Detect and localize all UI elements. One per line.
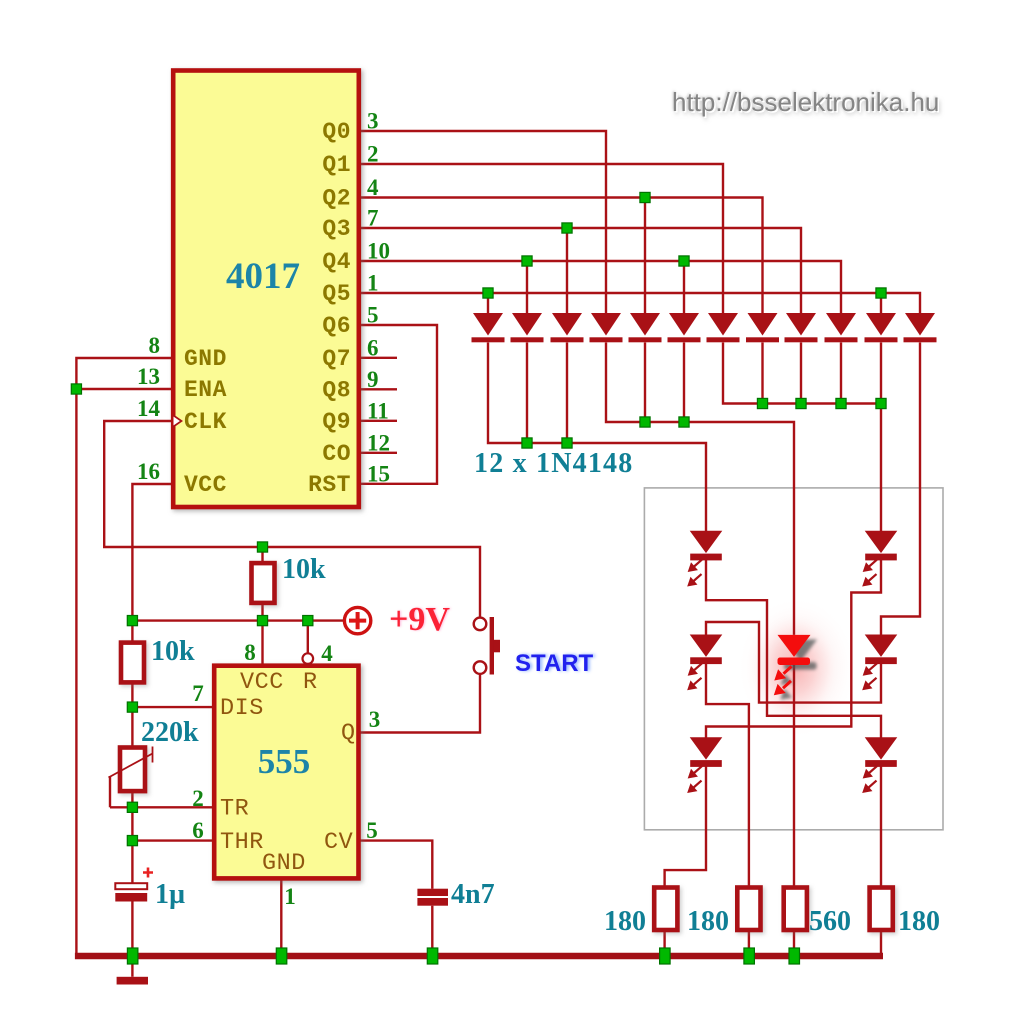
555 pin names [220, 669, 356, 877]
svg-text:RST: RST [308, 472, 351, 498]
svg-text:Q1: Q1 [322, 152, 351, 178]
resistor R6 10k left [121, 643, 144, 683]
diode D3 1N4148 [551, 313, 584, 342]
svg-text:7: 7 [367, 206, 379, 231]
wire DIS pin7 [132, 706, 214, 708]
wire pot wiper to TR line [109, 776, 111, 807]
4017 left pin names [184, 346, 227, 498]
op IC U2 555 body [214, 666, 358, 879]
wire Q5 pin1 to diode D12 [359, 293, 920, 313]
svg-text:3: 3 [369, 707, 381, 732]
wire Q3 pin7 to diode D9 [359, 228, 801, 313]
555 reset pin open circle [303, 653, 314, 664]
svg-text:Q9: Q9 [322, 409, 351, 435]
wire 555 R pin4 [307, 621, 309, 654]
wire 555 GND pin1 to rail [280, 878, 282, 954]
wire THR pin6 [132, 839, 214, 841]
svg-text:http://bsselektronika.hu: http://bsselektronika.hu [672, 87, 939, 117]
svg-text:8: 8 [244, 640, 256, 665]
svg-text:Q8: Q8 [322, 377, 351, 403]
diode D12 1N4148 [904, 313, 937, 342]
wire bus A: D4 bottom along y422 to center LED [606, 343, 794, 635]
svg-text:DIS: DIS [220, 695, 264, 722]
svg-text:CO: CO [322, 441, 351, 467]
svg-text:4: 4 [367, 175, 379, 200]
svg-text:1: 1 [367, 271, 379, 296]
svg-text:Q5: Q5 [322, 281, 351, 307]
wire D6 bottom to bus A [683, 343, 685, 423]
svg-text:R: R [303, 669, 318, 696]
wire D3 bottom to bus C [566, 343, 568, 444]
wire GND pin8 of 4017 down left side to ground rail [76, 358, 173, 954]
diode D6 1N4148 [668, 313, 701, 342]
wire Q0 pin3 to diode D4 [359, 131, 606, 313]
LED bottom-right [863, 738, 896, 793]
svg-text:VCC: VCC [240, 669, 284, 696]
wire diode D11 top to Q5 line [880, 293, 882, 313]
capacitor C1 1u electrolytic [115, 868, 153, 902]
wire R5 10k bottom lead to +9V [261, 603, 263, 621]
resistor R2 180 [737, 888, 760, 931]
resistor R3 560 [784, 888, 807, 931]
capacitor C2 4n7 [417, 889, 448, 906]
svg-text:14: 14 [137, 396, 161, 421]
diode D5 1N4148 [629, 313, 662, 342]
wire D8 bottom to bus B [761, 343, 763, 404]
svg-text:GND: GND [184, 346, 227, 372]
555 pin numbers [192, 640, 380, 909]
diode D1 1N4148 [472, 313, 505, 342]
wire bottom-right LED cathode to resistor R4 [880, 766, 882, 888]
svg-text:10k: 10k [151, 636, 195, 667]
svg-text:THR: THR [220, 829, 264, 856]
svg-text:6: 6 [192, 818, 204, 843]
wire 555 VCC pin8 [261, 621, 263, 666]
wire diode D1 top to Q5 line [487, 293, 489, 313]
shadow of lit center LED [780, 640, 817, 700]
LED mid-right [863, 635, 896, 690]
4017 right pin numbers [367, 109, 390, 487]
wire Q1 pin2 to diode D7 [359, 164, 723, 313]
wire diode D5 top to Q2 line [644, 198, 646, 314]
wire R6 10k left column top lead [131, 621, 133, 643]
svg-text:555: 555 [258, 742, 311, 781]
op IC U1 4017 body [173, 71, 359, 508]
svg-text:180: 180 [604, 906, 646, 937]
resistor R5 10k top [252, 563, 275, 603]
svg-text:180: 180 [687, 906, 729, 937]
svg-text:4: 4 [321, 641, 333, 666]
diode D11 1N4148 [865, 313, 898, 342]
svg-text:Q2: Q2 [322, 186, 351, 212]
svg-text:2: 2 [192, 786, 204, 811]
LED bottom-left [688, 738, 721, 793]
diode D10 1N4148 [825, 313, 858, 342]
svg-text:220k: 220k [141, 717, 199, 748]
wire R1 bottom to ground rail [663, 930, 665, 953]
wire D11 bottom down to top-right LED [880, 343, 882, 532]
svg-text:180: 180 [898, 906, 940, 937]
wire diode D2 top to Q4 line [526, 261, 528, 313]
potentiometer P1 220k [109, 747, 153, 792]
diode D7 1N4148 [707, 313, 740, 342]
wire diode D3 top to Q3 line [566, 228, 568, 313]
ground rail [75, 953, 883, 960]
LED dice box [644, 488, 943, 830]
wire center LED cathode to resistor R3 [793, 664, 795, 887]
svg-text:START: START [515, 650, 594, 677]
svg-text:ENA: ENA [184, 377, 227, 403]
wire pot P1 bottom through TR THR to capacitor C1 [131, 791, 133, 883]
wire R4 bottom to ground rail [880, 930, 882, 953]
+9V supply symbol [344, 607, 370, 633]
wire C1 bottom to rail and ground symbol [131, 902, 133, 977]
svg-text:2: 2 [367, 142, 379, 167]
diode D2 1N4148 [511, 313, 544, 342]
svg-text:+9V: +9V [389, 601, 450, 638]
svg-text:Q: Q [341, 720, 356, 747]
resistor R1 180 [654, 888, 677, 931]
diode D8 1N4148 [746, 313, 779, 342]
START push button S1 [474, 617, 500, 675]
diode D4 1N4148 [590, 313, 623, 342]
svg-text:7: 7 [192, 681, 204, 706]
svg-text:3: 3 [367, 109, 379, 134]
wire chain C: top-left LED cathode to bottom-right LED anode [706, 559, 881, 737]
svg-text:10: 10 [367, 239, 390, 264]
wire diode D6 top to Q4 line [683, 261, 685, 313]
svg-text:5: 5 [367, 303, 379, 328]
svg-text:Q0: Q0 [322, 119, 351, 145]
wire chain D: mid-right LED cathode to mid-left LED anode [706, 622, 881, 703]
svg-text:8: 8 [149, 333, 161, 358]
wire ENA pin13 to ground column [76, 388, 173, 390]
4017 left pin numbers [137, 333, 161, 484]
wire stub CO pin12 [359, 452, 397, 454]
wire bottom-left LED cathode to resistor R1 [665, 766, 706, 888]
svg-text:16: 16 [137, 459, 160, 484]
wire Q2 pin4 to diode D8 [359, 198, 763, 314]
wire C2 bottom to rail [431, 906, 433, 954]
svg-text:GND: GND [262, 850, 306, 877]
wire D10 bottom to bus B [840, 343, 842, 404]
wire Q6 pin5 to RST pin15 [359, 325, 437, 484]
4017 clock input chevron [174, 416, 182, 427]
svg-text:VCC: VCC [184, 472, 227, 498]
svg-text:Q6: Q6 [322, 313, 351, 339]
svg-text:12 x 1N4148: 12 x 1N4148 [474, 448, 633, 479]
wire CLK pin14 to clock line and START button [104, 421, 480, 617]
wire R6 bottom to DIS node and pot P1 top [131, 682, 133, 747]
LED mid-left [688, 635, 721, 690]
svg-text:12: 12 [367, 430, 390, 455]
wire D5 bottom to bus A [644, 343, 646, 423]
wire chain B: top-right LED cathode to bottom-left LED anode [706, 559, 881, 737]
svg-text:Q4: Q4 [322, 249, 351, 275]
svg-text:1: 1 [284, 884, 296, 909]
wire R5 10k top lead to clock line [261, 547, 263, 563]
svg-text:1µ: 1µ [155, 879, 185, 910]
wire bus B: D7 bottom along y403.5 to D11 column [723, 343, 881, 404]
LED center lit [774, 635, 811, 695]
ground symbol [117, 977, 148, 985]
wire stub Q7 pin6 [359, 357, 397, 359]
svg-text:CLK: CLK [184, 409, 227, 435]
svg-text:11: 11 [367, 398, 389, 423]
wire mid-left LED cathode to resistor R2 [706, 663, 749, 887]
svg-text:9: 9 [367, 367, 379, 392]
svg-text:13: 13 [137, 364, 160, 389]
svg-text:6: 6 [367, 335, 379, 360]
svg-text:TR: TR [220, 796, 249, 823]
wire D9 bottom to bus B [800, 343, 802, 404]
LED top-right [863, 531, 896, 586]
svg-text:10k: 10k [282, 554, 326, 585]
wire bus D: D12 bottom jog to mid-right LED [881, 343, 920, 635]
svg-text:4017: 4017 [226, 256, 300, 297]
svg-text:CV: CV [324, 829, 353, 856]
wire CV pin5 to capacitor C2 [359, 841, 433, 889]
resistor R4 180 [870, 888, 893, 931]
wire Q4 pin10 to diode D10 [359, 261, 841, 313]
wire VCC pin16 down to +9V node [132, 484, 173, 621]
svg-text:Q3: Q3 [322, 216, 351, 242]
wire R3 bottom to ground rail [793, 930, 795, 953]
wire +9V rail [132, 619, 343, 621]
wire D2 bottom to bus C [526, 343, 528, 444]
glow of lit center LED [737, 596, 857, 740]
svg-text:15: 15 [367, 461, 390, 486]
wire R2 bottom to ground rail [748, 930, 750, 953]
svg-text:Q7: Q7 [322, 346, 351, 372]
wire bus C: D1 bottom along y443 to top-left LED [488, 343, 706, 532]
LED top-left [688, 531, 721, 586]
4017 right pin names [308, 119, 351, 498]
wire TR pin2 [110, 806, 214, 808]
diode D9 1N4148 [785, 313, 818, 342]
wire stub Q8 pin9 [359, 388, 397, 390]
svg-text:5: 5 [366, 818, 378, 843]
svg-text:4n7: 4n7 [451, 879, 495, 910]
svg-text:560: 560 [809, 906, 851, 937]
wire stub Q9 pin11 [359, 420, 397, 422]
wire 555 Q pin3 to START button [359, 674, 481, 733]
